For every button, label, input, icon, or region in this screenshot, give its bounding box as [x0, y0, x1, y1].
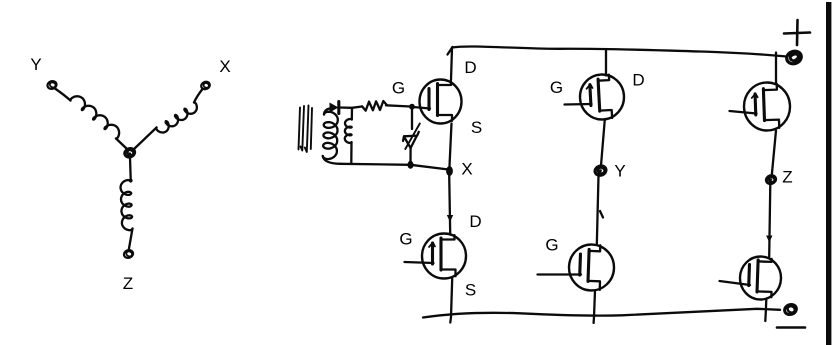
- svg-text:D: D: [632, 71, 644, 90]
- svg-text:G: G: [550, 78, 563, 97]
- svg-text:G: G: [392, 79, 405, 98]
- svg-text:Y: Y: [614, 162, 625, 181]
- svg-text:D: D: [464, 58, 476, 77]
- svg-text:G: G: [399, 230, 412, 249]
- svg-text:Z: Z: [782, 168, 792, 187]
- svg-text:X: X: [219, 57, 230, 76]
- svg-text:X: X: [461, 160, 472, 179]
- svg-text:D: D: [469, 212, 481, 231]
- svg-text:Y: Y: [30, 55, 41, 74]
- svg-text:S: S: [471, 118, 482, 137]
- svg-text:S: S: [465, 281, 476, 300]
- svg-text:Z: Z: [123, 274, 133, 293]
- svg-text:G: G: [545, 236, 558, 255]
